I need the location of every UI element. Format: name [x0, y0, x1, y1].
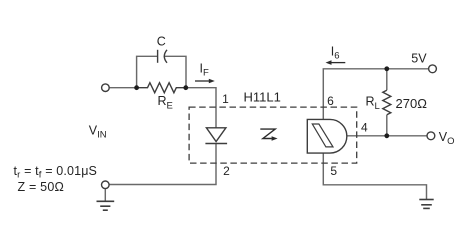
svg-text:5: 5	[330, 164, 337, 178]
svg-text:VO: VO	[439, 130, 455, 147]
svg-text:C: C	[157, 35, 166, 49]
svg-text:Z = 50Ω: Z = 50Ω	[18, 180, 65, 194]
svg-text:6: 6	[327, 94, 334, 108]
svg-text:5V: 5V	[411, 51, 427, 65]
svg-text:4: 4	[361, 120, 368, 134]
svg-text:RE: RE	[158, 94, 173, 112]
svg-text:tr = tf = 0.01μS: tr = tf = 0.01μS	[14, 164, 98, 181]
svg-text:1: 1	[222, 92, 229, 106]
svg-text:I6: I6	[331, 45, 340, 62]
svg-text:H11L1: H11L1	[244, 90, 281, 105]
svg-text:RL: RL	[366, 95, 380, 113]
svg-text:IF: IF	[200, 62, 209, 79]
svg-text:2: 2	[223, 164, 230, 178]
svg-text:270Ω: 270Ω	[396, 96, 428, 111]
svg-text:VIN: VIN	[89, 123, 107, 140]
